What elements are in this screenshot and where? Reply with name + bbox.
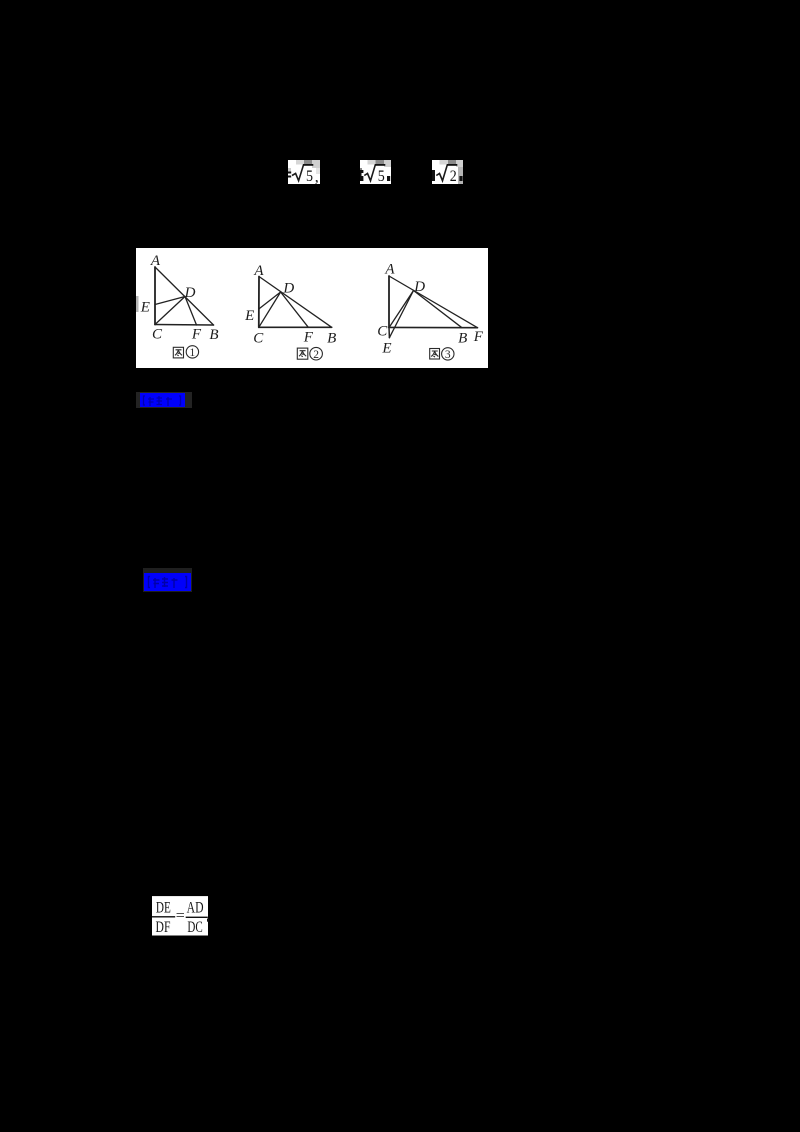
svg-text:AD: AD — [187, 900, 204, 917]
svg-text:F: F — [473, 329, 484, 345]
blue highlighted label 1 — [136, 392, 192, 409]
svg-text:A: A — [253, 263, 264, 279]
small gray smudge left edge near E of fig1 — [136, 296, 139, 312]
svg-text:5: 5 — [378, 168, 385, 184]
formula box 1: =√5, — [288, 160, 320, 184]
svg-text:2: 2 — [313, 349, 319, 361]
svg-text:E: E — [244, 308, 254, 324]
svg-text:F: F — [303, 330, 314, 346]
figure panel with three triangle diagrams — [136, 248, 488, 368]
caption 图3 — [430, 348, 454, 360]
svg-text:D: D — [282, 280, 294, 296]
fraction formula DE/DF = AD/DC — [152, 896, 209, 936]
svg-text:DE: DE — [156, 898, 171, 915]
figure 1 triangle ACB — [154, 267, 156, 325]
svg-text:A: A — [150, 253, 161, 269]
caption 图2 — [297, 347, 322, 360]
svg-text:B: B — [209, 327, 218, 343]
formula box 3: √2. — [432, 160, 463, 184]
figure 2 triangle ACB — [258, 277, 260, 328]
svg-text:B: B — [327, 330, 336, 346]
svg-text:B: B — [458, 330, 467, 346]
svg-text:=: = — [176, 908, 185, 925]
svg-text:C: C — [253, 330, 264, 346]
blue highlighted label 2 — [143, 568, 192, 592]
svg-text:D: D — [184, 285, 196, 301]
svg-text:A: A — [384, 262, 395, 278]
figure 3 triangle ACB with extensions — [388, 276, 390, 328]
svg-text:5: 5 — [306, 168, 313, 184]
svg-text:DF: DF — [156, 920, 171, 936]
svg-text:C: C — [152, 327, 163, 343]
svg-text:2: 2 — [450, 168, 457, 184]
svg-text:E: E — [381, 341, 391, 357]
svg-text:,: , — [315, 168, 319, 184]
svg-text:E: E — [140, 300, 150, 316]
caption 图1 — [173, 346, 198, 358]
svg-text:C: C — [377, 323, 388, 339]
svg-text:DC: DC — [187, 918, 202, 935]
svg-text:F: F — [191, 327, 202, 343]
formula box 2: 2√5. — [360, 160, 391, 184]
svg-text:D: D — [413, 279, 425, 295]
svg-text:1: 1 — [190, 347, 196, 359]
svg-text:3: 3 — [445, 349, 451, 361]
